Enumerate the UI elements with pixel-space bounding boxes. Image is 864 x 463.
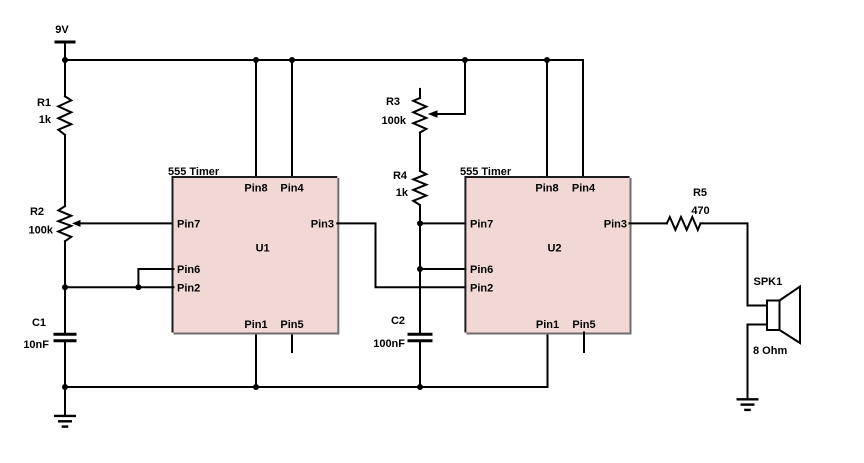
- svg-text:Pin4: Pin4: [280, 183, 304, 195]
- svg-text:470: 470: [691, 205, 709, 217]
- IC U1 555 timer: [168, 166, 338, 334]
- node U2 pin6 junction: [417, 266, 423, 272]
- svg-text:100k: 100k: [29, 225, 54, 237]
- wire 9V to R1: [64, 60, 66, 96]
- wire R2 to C1: [64, 241, 66, 334]
- resistor R1: [37, 96, 71, 135]
- IC U2 555 timer: [460, 166, 631, 334]
- stub U2 pin5: [583, 333, 585, 353]
- svg-text:Pin6: Pin6: [177, 264, 200, 276]
- svg-text:Pin5: Pin5: [572, 319, 595, 331]
- svg-text:Pin2: Pin2: [470, 282, 493, 294]
- capacitor C1: [23, 317, 76, 351]
- svg-text:Pin7: Pin7: [177, 218, 200, 230]
- svg-text:100k: 100k: [382, 115, 407, 127]
- wire speaker to ground: [748, 325, 768, 400]
- power 9V terminal bar: [55, 41, 76, 44]
- svg-text:Pin6: Pin6: [470, 264, 493, 276]
- wire U2 pin3 to R5: [630, 222, 667, 224]
- speaker SPK1: [753, 276, 800, 357]
- stub U1 pin5: [291, 333, 293, 353]
- svg-text:Pin3: Pin3: [604, 218, 627, 230]
- wire top VCC rail: [65, 60, 583, 178]
- ground (left): [54, 416, 76, 427]
- wire U2 pin8 drop: [546, 60, 548, 178]
- svg-text:R1: R1: [37, 97, 51, 109]
- svg-text:C2: C2: [391, 315, 405, 327]
- wire C2 to ground rail: [419, 341, 421, 387]
- svg-text:1k: 1k: [396, 187, 409, 199]
- node pin6/pin2 junction: [135, 284, 141, 290]
- resistor R4: [393, 170, 426, 205]
- svg-text:R3: R3: [386, 96, 400, 108]
- wire U1 pin1 down: [255, 333, 257, 388]
- svg-text:C1: C1: [32, 317, 46, 329]
- node R3 wiper on rail: [462, 57, 468, 63]
- wire U1 pin2: [65, 286, 174, 288]
- svg-text:R5: R5: [693, 187, 707, 199]
- svg-text:9V: 9V: [55, 24, 69, 36]
- node U1 pin8 on rail: [253, 57, 259, 63]
- wire ground rail: [65, 333, 548, 388]
- svg-text:10nF: 10nF: [23, 339, 49, 351]
- svg-text:555 Timer: 555 Timer: [168, 166, 220, 178]
- wire R3 to R4: [419, 133, 421, 171]
- wire R5 to speaker: [701, 223, 768, 305]
- resistor R5: [667, 187, 710, 230]
- node U1 pin4 on rail: [289, 57, 295, 63]
- svg-text:1k: 1k: [39, 114, 52, 126]
- wire U1 pin4 drop: [291, 60, 293, 178]
- node U1 pin1 on ground rail: [253, 384, 259, 390]
- svg-text:R4: R4: [393, 170, 408, 182]
- wire U2 pin7: [420, 222, 466, 224]
- node U2 pin8 on rail: [544, 57, 550, 63]
- svg-text:555 Timer: 555 Timer: [460, 166, 512, 178]
- node ground rail at C1: [62, 384, 68, 390]
- capacitor C2: [373, 315, 432, 350]
- svg-text:Pin7: Pin7: [470, 218, 493, 230]
- svg-text:Pin8: Pin8: [535, 183, 558, 195]
- svg-text:Pin4: Pin4: [572, 183, 596, 195]
- power 9V label: [55, 24, 69, 36]
- svg-text:100nF: 100nF: [373, 338, 405, 350]
- node U2 pin7 junction: [417, 220, 423, 226]
- node pin2 line at left column: [62, 284, 68, 290]
- wire 9V bar down to rail: [64, 42, 66, 60]
- svg-text:U2: U2: [547, 243, 561, 255]
- wire U1 pin3 to U2 pin2: [337, 223, 466, 287]
- wire R1 to R2: [64, 135, 66, 206]
- wire R4 down to C2: [419, 205, 421, 334]
- potentiometer R3: [382, 60, 465, 133]
- svg-text:U1: U1: [256, 243, 270, 255]
- svg-text:Pin2: Pin2: [177, 282, 200, 294]
- wire C1 to ground: [64, 341, 66, 416]
- svg-text:R2: R2: [30, 206, 44, 218]
- svg-text:Pin1: Pin1: [536, 319, 559, 331]
- svg-text:Pin3: Pin3: [311, 218, 334, 230]
- ground (right): [737, 399, 759, 410]
- svg-text:SPK1: SPK1: [754, 276, 783, 288]
- wire U1 pin6: [138, 269, 173, 287]
- svg-text:Pin5: Pin5: [280, 319, 303, 331]
- node VCC at 9V: [62, 57, 68, 63]
- potentiometer R2: [29, 206, 174, 241]
- wire U2 pin6: [420, 268, 466, 270]
- svg-text:8 Ohm: 8 Ohm: [753, 345, 787, 357]
- svg-text:Pin8: Pin8: [244, 183, 267, 195]
- svg-text:Pin1: Pin1: [244, 319, 267, 331]
- wire U1 pin8 drop: [255, 60, 257, 178]
- node C2 on ground rail: [417, 384, 423, 390]
